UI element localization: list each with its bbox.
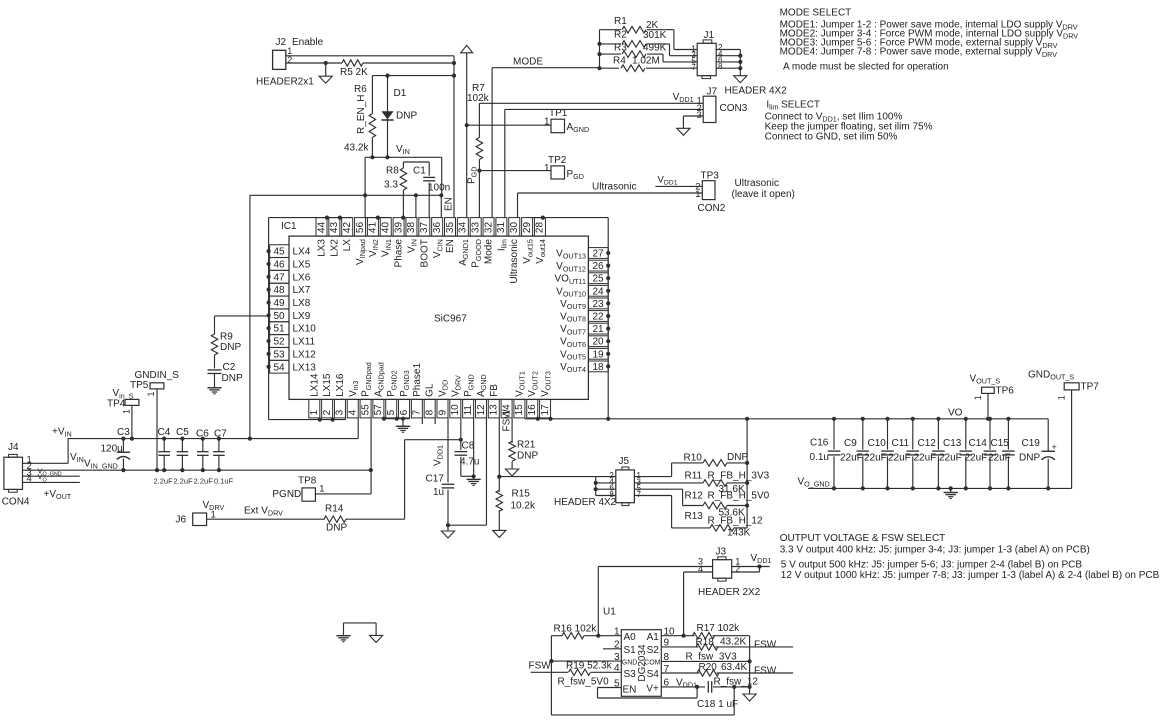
svg-text:BOOT: BOOT xyxy=(419,239,430,267)
svg-text:S3: S3 xyxy=(624,669,637,680)
svg-text:38: 38 xyxy=(406,222,417,234)
svg-text:3.3: 3.3 xyxy=(384,180,398,191)
svg-text:R21: R21 xyxy=(517,439,536,450)
svg-text:30: 30 xyxy=(509,222,520,234)
svg-text:22uF: 22uF xyxy=(939,452,962,463)
svg-text:2.2uF: 2.2uF xyxy=(194,476,214,485)
svg-text:5: 5 xyxy=(386,409,397,415)
svg-text:Ultrasonic: Ultrasonic xyxy=(592,182,636,193)
svg-text:HEADER 4X2: HEADER 4X2 xyxy=(554,497,617,508)
svg-text:COM: COM xyxy=(644,660,661,667)
svg-text:HEADER 2X2: HEADER 2X2 xyxy=(698,587,761,598)
svg-text:LX4: LX4 xyxy=(293,247,311,258)
svg-text:R16 102k: R16 102k xyxy=(554,624,598,635)
svg-text:R12: R12 xyxy=(685,490,704,501)
svg-text:SiC967: SiC967 xyxy=(434,314,467,325)
svg-text:CON4: CON4 xyxy=(2,496,30,507)
svg-text:52: 52 xyxy=(273,337,285,348)
svg-text:8: 8 xyxy=(718,62,723,71)
svg-text:LX13: LX13 xyxy=(293,362,317,373)
svg-text:499K: 499K xyxy=(643,42,667,53)
svg-text:2.2uF: 2.2uF xyxy=(174,476,194,485)
svg-text:HEADER2x1: HEADER2x1 xyxy=(256,76,314,87)
svg-text:R13: R13 xyxy=(685,511,704,522)
svg-text:TP5: TP5 xyxy=(130,380,149,391)
svg-text:LX11: LX11 xyxy=(293,337,316,348)
svg-text:S1: S1 xyxy=(624,645,637,656)
svg-text:21: 21 xyxy=(592,324,604,335)
svg-text:Ultrasonic: Ultrasonic xyxy=(735,178,779,189)
svg-text:102k: 102k xyxy=(467,93,490,104)
svg-text:22uF: 22uF xyxy=(914,452,937,463)
svg-text:23: 23 xyxy=(592,299,604,310)
svg-text:7: 7 xyxy=(691,63,696,72)
svg-text:45: 45 xyxy=(273,247,285,258)
svg-text:Connect to GND, set ilim 50%: Connect to GND, set ilim 50% xyxy=(765,131,898,142)
svg-text:GL: GL xyxy=(425,383,436,397)
svg-text:28: 28 xyxy=(535,222,546,234)
svg-text:FSW: FSW xyxy=(754,665,777,676)
svg-text:PGND: PGND xyxy=(272,489,301,500)
svg-text:R20: R20 xyxy=(699,662,718,673)
svg-text:C8: C8 xyxy=(462,441,475,452)
svg-text:63.4K: 63.4K xyxy=(721,662,747,673)
svg-text:LX12: LX12 xyxy=(293,349,317,360)
svg-text:Enable: Enable xyxy=(292,37,324,48)
svg-text:143K: 143K xyxy=(727,528,751,539)
svg-text:R1: R1 xyxy=(614,16,627,27)
svg-text:R2: R2 xyxy=(614,30,627,41)
svg-text:11: 11 xyxy=(463,405,474,416)
svg-text:C7: C7 xyxy=(214,429,227,440)
svg-text:34: 34 xyxy=(458,222,469,234)
svg-text:DNP: DNP xyxy=(222,373,243,384)
svg-text:C15: C15 xyxy=(991,438,1010,449)
svg-text:R_fsw_12: R_fsw_12 xyxy=(714,676,759,687)
svg-text:1: 1 xyxy=(309,409,320,415)
svg-text:C6: C6 xyxy=(196,429,209,440)
svg-text:47: 47 xyxy=(273,272,285,283)
svg-text:R5 2K: R5 2K xyxy=(340,67,368,78)
svg-text:S2: S2 xyxy=(647,645,660,656)
svg-text:5 V output 500 kHz: J5: jumper: 5 V output 500 kHz: J5: jumper 5-6; J3: … xyxy=(781,559,1083,570)
svg-text:C2: C2 xyxy=(223,362,236,373)
svg-text:31: 31 xyxy=(496,222,507,234)
svg-text:MODE4: Jumper 7-8 : Power save: MODE4: Jumper 7-8 : Power save mode, ext… xyxy=(780,47,1058,59)
svg-text:FB: FB xyxy=(489,384,500,397)
svg-text:J2: J2 xyxy=(276,37,287,48)
svg-text:R8: R8 xyxy=(386,166,399,177)
svg-text:R3: R3 xyxy=(614,42,627,53)
svg-text:LX2: LX2 xyxy=(329,239,340,257)
svg-text:C9: C9 xyxy=(844,438,857,449)
svg-text:EN: EN xyxy=(445,239,456,253)
svg-text:+: + xyxy=(1052,442,1057,452)
svg-text:55: 55 xyxy=(360,404,371,416)
svg-text:1: 1 xyxy=(1057,395,1067,400)
svg-text:A0: A0 xyxy=(624,632,637,643)
svg-text:LX3: LX3 xyxy=(317,239,328,257)
svg-text:LX10: LX10 xyxy=(293,324,317,335)
svg-text:C4: C4 xyxy=(158,427,171,438)
svg-text:24: 24 xyxy=(592,286,604,297)
svg-text:LX5: LX5 xyxy=(293,259,311,270)
svg-text:44: 44 xyxy=(316,222,327,234)
svg-text:42: 42 xyxy=(342,222,353,234)
svg-text:25: 25 xyxy=(592,274,604,285)
svg-text:2.2uF: 2.2uF xyxy=(154,476,174,485)
svg-text:50: 50 xyxy=(273,311,285,322)
svg-text:TP2: TP2 xyxy=(548,155,567,166)
svg-text:R4: R4 xyxy=(613,55,626,66)
svg-text:4.7u: 4.7u xyxy=(460,457,479,468)
svg-text:46: 46 xyxy=(273,259,285,270)
svg-text:36: 36 xyxy=(432,222,443,234)
svg-text:7: 7 xyxy=(412,409,423,415)
svg-text:120u: 120u xyxy=(101,444,123,455)
svg-text:C16: C16 xyxy=(810,437,829,448)
svg-text:49: 49 xyxy=(273,298,285,309)
svg-text:R6: R6 xyxy=(354,84,367,95)
svg-text:R_fsw_5V0: R_fsw_5V0 xyxy=(558,677,610,688)
svg-text:22: 22 xyxy=(592,312,604,323)
svg-text:TP3: TP3 xyxy=(701,170,720,181)
svg-text:VO: VO xyxy=(948,408,963,419)
svg-text:LX6: LX6 xyxy=(293,272,311,283)
svg-text:3: 3 xyxy=(697,110,702,120)
svg-text:J7: J7 xyxy=(707,87,718,98)
svg-text:22uF: 22uF xyxy=(840,452,863,463)
svg-text:12: 12 xyxy=(476,404,487,416)
svg-text:Mode: Mode xyxy=(484,239,495,264)
svg-text:MODE: MODE xyxy=(513,57,543,68)
svg-text:IC1: IC1 xyxy=(281,221,297,232)
svg-text:TP8: TP8 xyxy=(298,475,317,486)
svg-text:1u: 1u xyxy=(433,487,444,498)
svg-text:C1: C1 xyxy=(413,166,426,177)
svg-text:R_FB_H_5V0: R_FB_H_5V0 xyxy=(708,490,770,501)
svg-text:LX16: LX16 xyxy=(335,373,346,397)
svg-text:J3: J3 xyxy=(716,547,727,558)
svg-text:0.1u: 0.1u xyxy=(810,452,829,463)
svg-text:HEADER 4X2: HEADER 4X2 xyxy=(725,86,788,97)
svg-text:C18 1 uF: C18 1 uF xyxy=(697,699,738,710)
svg-text:10: 10 xyxy=(450,404,461,416)
svg-text:9: 9 xyxy=(437,409,448,415)
svg-text:Phase: Phase xyxy=(394,239,405,268)
svg-text:R11: R11 xyxy=(685,470,703,481)
svg-text:12 V output 1000 kHz: J5: jump: 12 V output 1000 kHz: J5: jumper 7-8; J3… xyxy=(781,570,1160,581)
svg-text:19: 19 xyxy=(592,349,604,360)
svg-text:22uF: 22uF xyxy=(988,452,1011,463)
svg-text:35: 35 xyxy=(445,222,456,234)
svg-text:26: 26 xyxy=(592,261,604,272)
svg-text:J5: J5 xyxy=(619,456,630,467)
svg-text:57: 57 xyxy=(373,404,384,416)
svg-text:D1: D1 xyxy=(394,88,407,99)
svg-text:40: 40 xyxy=(381,222,392,234)
svg-text:DNP: DNP xyxy=(220,342,241,353)
svg-text:7: 7 xyxy=(637,490,642,499)
svg-text:32: 32 xyxy=(483,222,494,234)
svg-text:J1: J1 xyxy=(704,30,715,41)
svg-text:1: 1 xyxy=(146,391,156,396)
svg-text:R_EN_H: R_EN_H xyxy=(356,95,367,134)
svg-text:0.1uF: 0.1uF xyxy=(214,476,234,485)
svg-text:(leave it open): (leave it open) xyxy=(732,189,795,200)
svg-text:18: 18 xyxy=(592,362,604,373)
svg-text:R_FB_H_12: R_FB_H_12 xyxy=(708,515,763,526)
svg-text:U1: U1 xyxy=(603,607,616,618)
svg-text:LX15: LX15 xyxy=(322,373,333,397)
svg-text:C14: C14 xyxy=(969,438,988,449)
svg-text:301K: 301K xyxy=(643,30,667,41)
svg-text:R10: R10 xyxy=(684,452,703,463)
svg-text:43: 43 xyxy=(329,222,340,234)
svg-text:1: 1 xyxy=(973,395,983,400)
svg-text:C10: C10 xyxy=(868,438,887,449)
svg-text:R14: R14 xyxy=(325,504,344,515)
svg-text:TP7: TP7 xyxy=(1081,382,1100,393)
svg-text:22uF: 22uF xyxy=(888,452,911,463)
svg-text:DNP: DNP xyxy=(1019,452,1040,463)
svg-text:LX14: LX14 xyxy=(309,373,320,397)
svg-text:22uF: 22uF xyxy=(864,452,887,463)
svg-text:R_fsw_3V3: R_fsw_3V3 xyxy=(686,651,738,662)
svg-text:33: 33 xyxy=(471,222,482,234)
svg-text:C11: C11 xyxy=(892,438,910,449)
svg-text:16: 16 xyxy=(527,404,538,416)
svg-text:2: 2 xyxy=(322,409,333,415)
svg-text:54: 54 xyxy=(273,362,285,373)
svg-text:1.02M: 1.02M xyxy=(632,55,660,66)
svg-text:15: 15 xyxy=(514,404,525,416)
svg-text:EN: EN xyxy=(623,685,637,696)
svg-text:27: 27 xyxy=(592,249,604,260)
svg-text:C12: C12 xyxy=(918,438,937,449)
svg-text:C3: C3 xyxy=(117,427,130,438)
svg-text:TP6: TP6 xyxy=(996,386,1015,397)
svg-text:8: 8 xyxy=(424,409,435,415)
svg-text:DNP: DNP xyxy=(396,111,417,122)
svg-text:FSW: FSW xyxy=(502,409,513,432)
svg-text:53: 53 xyxy=(273,349,285,360)
svg-text:LX: LX xyxy=(342,239,353,252)
svg-text:20: 20 xyxy=(592,337,604,348)
svg-text:10.2k: 10.2k xyxy=(511,501,536,512)
svg-text:DNP: DNP xyxy=(727,452,748,463)
svg-text:43.2K: 43.2K xyxy=(720,636,746,647)
svg-text:R_FB_H_3V3: R_FB_H_3V3 xyxy=(708,470,770,481)
svg-text:22uF: 22uF xyxy=(965,452,988,463)
svg-text:A1: A1 xyxy=(647,632,660,643)
svg-text:4: 4 xyxy=(348,409,359,415)
svg-text:R18: R18 xyxy=(696,637,715,648)
svg-text:Phase1: Phase1 xyxy=(412,363,423,397)
svg-text:FSW: FSW xyxy=(529,660,552,671)
svg-text:OUTPUT VOLTAGE & FSW SELECT: OUTPUT VOLTAGE & FSW SELECT xyxy=(780,533,946,544)
svg-text:EN: EN xyxy=(444,197,455,211)
svg-text:1: 1 xyxy=(122,409,132,414)
svg-text:MODE SELECT: MODE SELECT xyxy=(780,8,852,19)
svg-text:GND: GND xyxy=(622,660,638,667)
svg-text:100n: 100n xyxy=(428,183,450,194)
svg-text:51: 51 xyxy=(273,324,285,335)
svg-text:1: 1 xyxy=(695,189,700,200)
svg-text:3.3 V output 400 kHz: J5: jump: 3.3 V output 400 kHz: J5: jumper 3-4; J3… xyxy=(780,544,1090,555)
svg-text:FSW: FSW xyxy=(754,639,777,650)
svg-text:56: 56 xyxy=(355,222,366,234)
svg-text:C17: C17 xyxy=(426,474,445,485)
svg-text:GNDIN_S: GNDIN_S xyxy=(135,370,180,381)
svg-text:A mode must be slected for ope: A mode must be slected for operation xyxy=(783,61,949,72)
svg-text:Ultrasonic: Ultrasonic xyxy=(509,239,520,283)
svg-text:DNP: DNP xyxy=(517,450,538,461)
svg-text:R17: R17 xyxy=(697,623,716,634)
svg-text:R15: R15 xyxy=(512,489,531,500)
svg-text:LX7: LX7 xyxy=(293,285,311,296)
svg-text:1: 1 xyxy=(319,484,324,495)
svg-text:CON2: CON2 xyxy=(698,203,726,214)
svg-text:S4: S4 xyxy=(647,669,660,680)
svg-text:R19 52.3k: R19 52.3k xyxy=(566,660,613,671)
svg-text:J6: J6 xyxy=(176,515,187,526)
svg-text:C19: C19 xyxy=(1022,438,1041,449)
svg-text:37: 37 xyxy=(419,222,430,234)
svg-text:39: 39 xyxy=(393,222,404,234)
svg-text:CON3: CON3 xyxy=(720,103,748,114)
svg-text:C13: C13 xyxy=(943,438,962,449)
svg-text:V+: V+ xyxy=(646,684,659,695)
svg-text:29: 29 xyxy=(522,222,533,234)
svg-text:43.2k: 43.2k xyxy=(344,143,369,154)
svg-text:C5: C5 xyxy=(176,427,189,438)
svg-text:13: 13 xyxy=(489,404,500,416)
svg-text:LX8: LX8 xyxy=(293,298,311,309)
svg-text:48: 48 xyxy=(273,285,285,296)
svg-text:17: 17 xyxy=(540,404,551,416)
svg-text:102k: 102k xyxy=(718,623,741,634)
svg-text:3: 3 xyxy=(335,409,346,415)
svg-text:J4: J4 xyxy=(8,442,19,453)
svg-text:LX9: LX9 xyxy=(293,311,311,322)
svg-text:6: 6 xyxy=(399,409,410,415)
svg-text:DNP: DNP xyxy=(326,523,347,534)
svg-text:41: 41 xyxy=(368,222,379,234)
